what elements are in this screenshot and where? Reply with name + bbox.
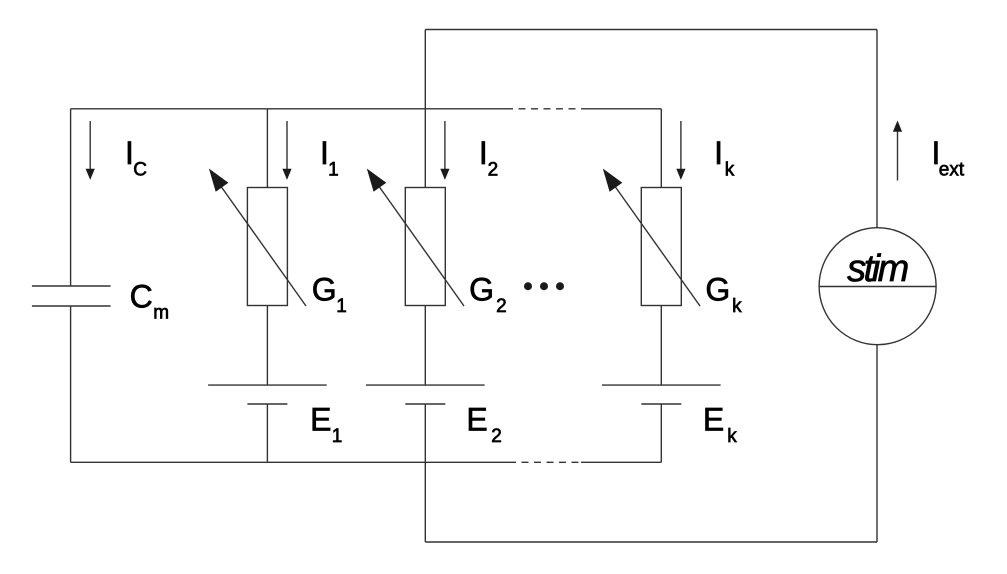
capacitor Cm plates [32,286,111,306]
wire: outer loop top [425,29,877,31]
battery E1 plates [208,385,327,404]
arrowhead I_1 [282,169,291,180]
current arrow line I_k [680,121,682,171]
svg-text:C: C [130,279,153,315]
svg-text:m: m [153,303,169,324]
current arrow line I_1 [286,121,288,171]
svg-text:C: C [133,160,147,181]
arrowhead I_C [86,169,95,180]
current arrow line I_ext [897,130,899,181]
wire: inner top rail dashed segment [506,108,581,110]
dots continuation [524,282,532,290]
arrowhead G1 variable arrow [209,169,229,192]
svg-text:I: I [714,135,723,171]
label I_ext [932,135,965,181]
label G2 [469,271,507,317]
arrowhead Gk variable arrow [603,169,623,192]
wire: inner bottom rail left segment [71,461,509,463]
current source stim chord [819,286,936,288]
label I_1 [320,135,339,181]
svg-text:G: G [705,271,730,307]
current arrow line I_C [89,121,91,171]
arrowhead I_k [676,169,685,180]
label Ek [703,401,737,447]
wire: inner bottom rail dashed segment [509,461,581,463]
svg-text:G: G [312,271,337,307]
svg-text:k: k [732,296,742,317]
variable-arrow Gk [614,185,700,306]
svg-text:1: 1 [332,426,343,447]
label G1 [312,271,347,317]
svg-text:1: 1 [328,160,339,181]
svg-text:2: 2 [488,160,499,181]
wire: inner top rail right segment [581,108,661,110]
label Cm [130,279,169,324]
svg-text:E: E [310,401,331,437]
arrowhead G2 variable arrow [367,169,387,192]
resistor box G2 [405,188,445,306]
wire: inner bottom rail right segment [581,461,661,463]
label Gk [705,271,742,317]
svg-text:E: E [703,401,724,437]
svg-text:2: 2 [491,426,502,447]
svg-text:G: G [469,271,494,307]
battery E2 plates [366,385,485,404]
label I_2 [479,135,498,181]
battery Ek plates [602,385,721,404]
variable-arrow G2 [378,185,464,306]
current source stim circle [819,228,936,345]
wire: outer loop bottom [425,541,877,543]
wire: outer loop right upper [876,30,878,228]
resistor box G1 [247,188,287,306]
resistor box Gk [641,188,681,306]
wire: G1 branch verticals [266,109,268,463]
svg-text:2: 2 [496,296,507,317]
svg-text:ext: ext [939,160,965,181]
label E1 [310,401,342,447]
svg-text:k: k [727,426,737,447]
wire: inner top rail left segment [71,108,506,110]
label E2 [466,401,501,447]
svg-text:I: I [479,135,488,171]
arrowhead I_ext [893,121,902,132]
wire: outer loop left lower [424,462,426,542]
variable-arrow G1 [220,185,306,306]
label I_C [125,135,147,181]
svg-text:k: k [725,160,735,181]
wire: outer loop right lower [876,345,878,542]
label I_k [714,135,735,181]
wire: Gk branch verticals [660,109,662,463]
wire: G2 branch verticals [424,30,426,463]
arrowhead I_2 [440,169,449,180]
svg-text:1: 1 [336,296,347,317]
svg-text:stim: stim [847,248,908,290]
svg-text:E: E [466,401,487,437]
wire: left branch vertical (capacitor branch) [70,109,72,463]
current arrow line I_2 [444,121,446,171]
